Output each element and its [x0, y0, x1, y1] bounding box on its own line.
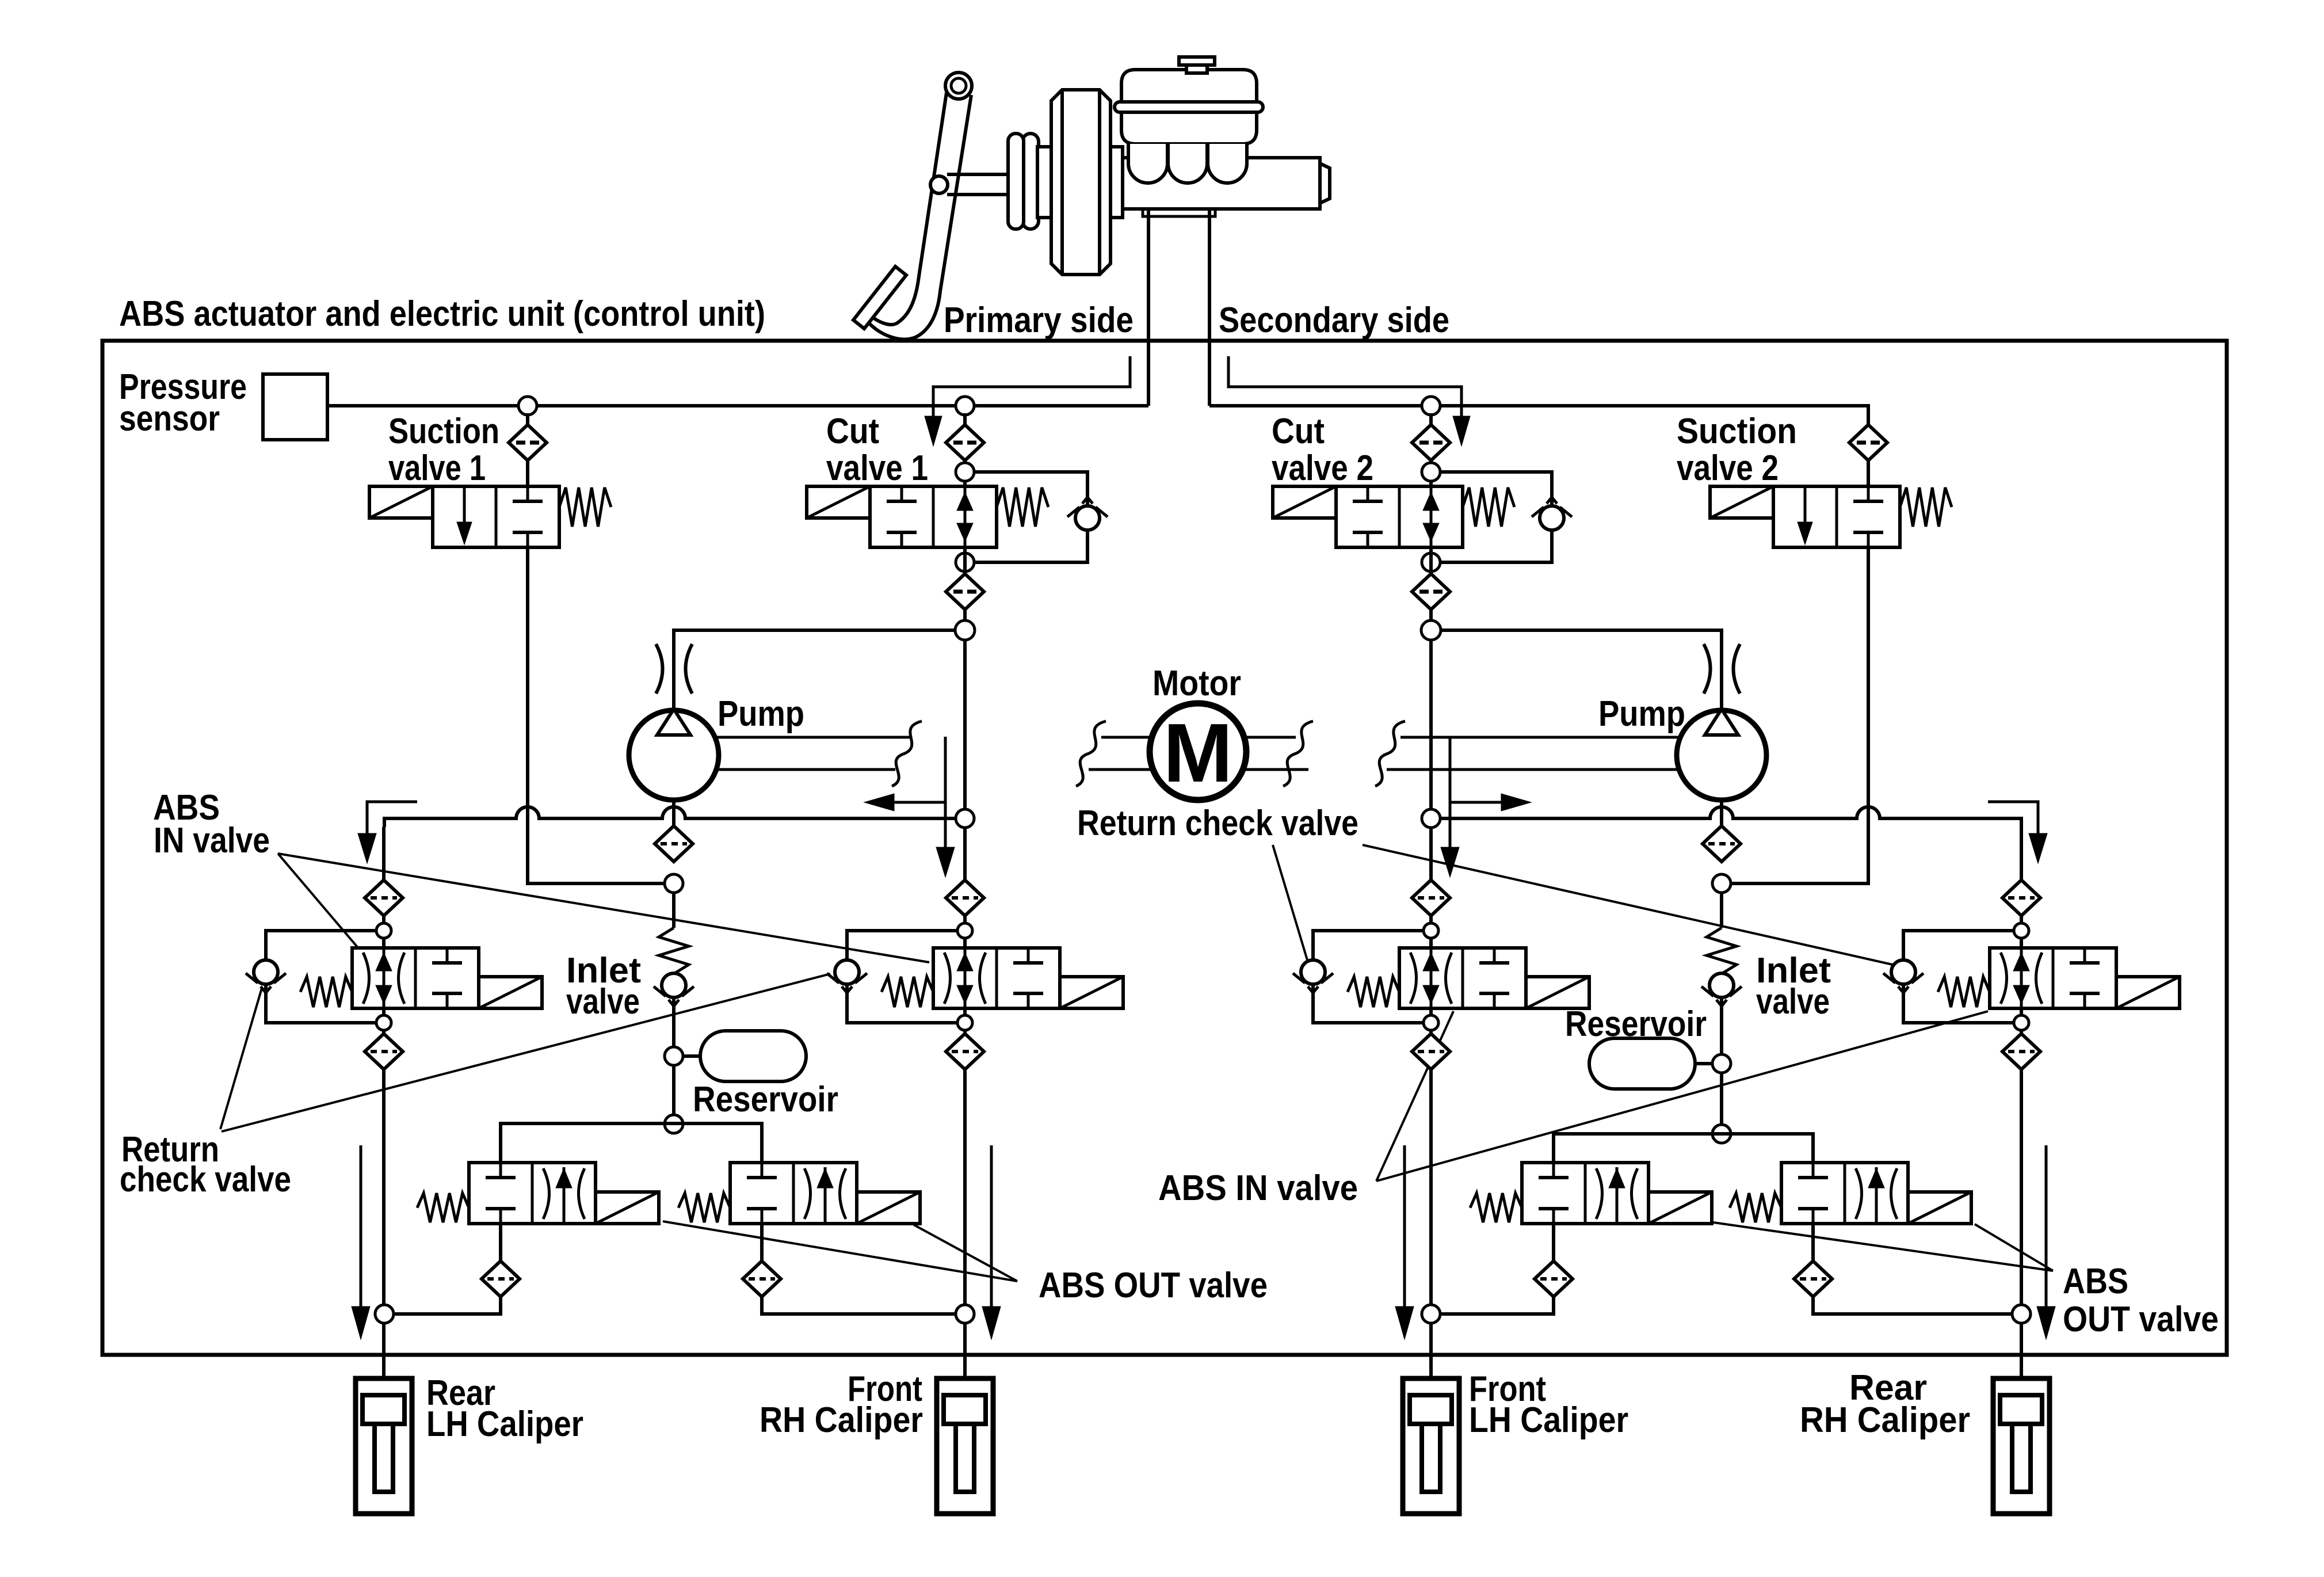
svg-text:ABS: ABS: [2063, 1262, 2128, 1301]
flow arrow into cut valve 1: [933, 356, 1130, 416]
wire: right check to reservoir: [1720, 999, 1723, 1055]
wire: primary main line: [327, 404, 1148, 407]
check valve: IN valve 4 bypass: [1891, 960, 1915, 984]
wire: left pressure manifold: [384, 807, 956, 827]
node: cut valve 1 bypass bottom: [956, 553, 974, 572]
node: IN valve 3 bypass bottom: [1424, 1015, 1438, 1030]
suction valve 1 body: [433, 486, 559, 547]
motor M1: [1150, 703, 1246, 800]
wire: caliper column 2: [963, 1069, 967, 1394]
ABS OUT valve 2 solenoid: [857, 1192, 920, 1224]
wire: suction valve 1 to pump suction: [528, 547, 665, 883]
ABS IN valve 2 body: [933, 948, 1060, 1008]
push rod pivot: [930, 176, 948, 193]
inlet valve spring right: [1707, 928, 1737, 974]
pointer: ABS IN left to IN1: [278, 854, 360, 950]
filter: IN valve 4 outlet: [2002, 1034, 2040, 1069]
check valve: cut valve 1 bypass: [1075, 506, 1100, 530]
push rod: [947, 173, 1019, 176]
filter: IN valve 2 outlet: [946, 1034, 984, 1069]
filter: IN valve 1 outlet: [365, 1034, 403, 1069]
svg-text:RH Caliper: RH Caliper: [1800, 1400, 1970, 1440]
ABS OUT valve 3 body: [1522, 1163, 1648, 1224]
svg-text:OUT valve: OUT valve: [2063, 1300, 2219, 1339]
ABS IN valve 2 spring: [881, 977, 933, 1007]
svg-text:Cut: Cut: [826, 412, 879, 451]
node: left reservoir tap: [665, 1047, 683, 1065]
svg-text:Motor: Motor: [1153, 664, 1241, 703]
booster spacer left: [1037, 147, 1051, 218]
node: cut valve 1 bypass top: [956, 463, 974, 481]
svg-text:valve: valve: [566, 982, 640, 1022]
node: right out manifold junction: [1712, 1125, 1731, 1143]
master cylinder outlet flange: [1143, 209, 1215, 216]
svg-text:valve 1: valve 1: [826, 448, 928, 488]
wire: IN valve 3 bypass: [1313, 931, 1424, 1023]
wire: caliper column 1: [382, 1069, 386, 1394]
node: IN valve 2 bypass bottom: [957, 1015, 972, 1030]
wire: primary outlet pipe: [1147, 209, 1150, 406]
pedal pivot: [945, 73, 972, 99]
svg-text:LH Caliper: LH Caliper: [1469, 1400, 1628, 1440]
wire: suction valve 2 to pump suction: [1730, 547, 1868, 883]
filter: cut valve 2 inlet: [1412, 425, 1450, 460]
node: left manifold junction: [956, 809, 974, 828]
wire: right inlet valve column: [1720, 892, 1723, 928]
ABS OUT valve 3 solenoid: [1648, 1192, 1712, 1224]
wire: OUT valve 2 drain: [760, 1224, 764, 1261]
filter: OUT valve 2 outlet: [743, 1261, 781, 1297]
node: IN valve 1 bypass bottom: [376, 1015, 391, 1030]
check valve: IN valve 3 bypass: [1301, 960, 1325, 984]
node: suction valve 1 tap: [518, 397, 537, 415]
wire: pump right to reservoir column: [1720, 800, 1723, 827]
ABS OUT valve 1 spring: [417, 1193, 469, 1222]
svg-text:ABS actuator and electric unit: ABS actuator and electric unit (control …: [119, 294, 765, 334]
flow arrow to caliper 4: [2045, 1145, 2048, 1306]
filter: IN valve 3 inlet: [1412, 880, 1450, 916]
suction valve 1 spring: [559, 487, 611, 527]
suction valve 2 spring: [1900, 487, 1952, 527]
ABS IN valve 4 spring: [1938, 977, 1990, 1007]
wire: IN valve 2 drop: [963, 827, 967, 880]
node: right suction join: [1712, 874, 1731, 893]
filter: suction valve 2 inlet: [1849, 425, 1887, 460]
ABS OUT valve 2 spring: [678, 1193, 730, 1222]
wire: cut valve 1 bypass: [974, 472, 1087, 562]
node: pump 2 branch: [1421, 620, 1441, 640]
wire: caliper column 3: [1429, 1069, 1433, 1394]
wire: OUT valve 1 drain: [499, 1224, 502, 1261]
check valve: cut valve 2 bypass: [1540, 506, 1564, 530]
pump 1 inlet hose marks: [656, 644, 663, 694]
wire: OUT valve 3 drain: [1552, 1224, 1555, 1261]
check valve: IN valve 2 bypass: [835, 960, 859, 984]
ABS OUT valve 3 spring: [1470, 1193, 1522, 1222]
svg-text:sensor: sensor: [119, 399, 220, 439]
wire: OUT valve 4 drain: [1811, 1224, 1815, 1261]
flow arrow: right manifold: [1450, 801, 1501, 804]
node: cut valve 2 bypass top: [1422, 463, 1440, 481]
ABS IN valve 1 body: [352, 948, 479, 1008]
svg-text:Pump: Pump: [718, 694, 804, 734]
wire: cut valve 1 lower drop: [963, 547, 967, 818]
ABS IN valve 3 body: [1399, 948, 1526, 1008]
wire: caliper column 4: [2020, 1069, 2023, 1394]
filter: left pump outlet: [655, 826, 693, 862]
cut valve 2 solenoid: [1273, 486, 1336, 518]
ABS IN valve 2 solenoid: [1060, 977, 1123, 1008]
pointer: ABS OUT left to OUT1: [663, 1221, 1017, 1281]
wire: right pressure manifold: [1440, 807, 2021, 880]
ABS OUT valve 1 body: [469, 1163, 596, 1224]
pointer: return check left to IN1: [220, 988, 262, 1129]
motor shaft right: [1244, 736, 1296, 739]
wire: IN valve 4 bypass: [1903, 931, 2014, 1023]
svg-text:Suction: Suction: [388, 412, 499, 451]
wire: reservoir 1 stub: [682, 1054, 700, 1058]
reservoir filler cap: [1179, 57, 1215, 65]
svg-text:RH Caliper: RH Caliper: [760, 1400, 923, 1440]
svg-text:valve 1: valve 1: [388, 448, 486, 488]
wire: cut valve 2 drop: [1429, 413, 1433, 486]
filter: OUT valve 4 outlet: [1794, 1261, 1832, 1297]
flow arrow into cut valve 2: [1228, 356, 1461, 416]
wire: pump left to reservoir column: [672, 800, 676, 827]
caliper: Rear LH: [356, 1378, 412, 1514]
wire: IN valve 1 drop: [382, 827, 386, 880]
ABS OUT valve 2 body: [730, 1163, 857, 1224]
wire: right reservoir to out manifold: [1720, 1072, 1723, 1125]
suction valve 2 body: [1773, 486, 1900, 547]
filter: cut valve 1 inlet: [946, 425, 984, 460]
svg-text:Return check valve: Return check valve: [1077, 803, 1358, 843]
svg-text:valve 2: valve 2: [1677, 448, 1779, 488]
wire: left out manifold: [501, 1123, 762, 1163]
cut valve 1 solenoid: [807, 486, 870, 518]
svg-text:ABS IN valve: ABS IN valve: [1158, 1168, 1358, 1208]
wire: suction valve 2 drop: [1867, 460, 1870, 486]
filter: OUT valve 1 outlet: [482, 1261, 520, 1297]
booster drum: [1051, 90, 1111, 275]
svg-text:Reservoir: Reservoir: [693, 1080, 838, 1119]
cut valve 2 spring: [1463, 487, 1514, 527]
pointer: ABS OUT right to OUT4: [1975, 1224, 2053, 1271]
pointer: return check left to IN2: [222, 974, 830, 1132]
suction valve 2 solenoid: [1710, 486, 1773, 518]
pointer: return check right to IN4: [1363, 845, 1898, 966]
pump P1: [629, 710, 719, 800]
pointer: ABS IN left to IN2: [278, 854, 929, 962]
flow arrow: left manifold: [894, 801, 945, 804]
filter: cut valve 1 outlet: [946, 574, 984, 610]
flow arrow into ABS IN valve 1: [367, 802, 417, 833]
node: caliper 1 junction: [375, 1305, 394, 1323]
ABS OUT valve 4 body: [1781, 1163, 1908, 1224]
pointer: ABS IN right to IN3: [1376, 1011, 1453, 1181]
ABS IN valve 3 spring: [1348, 977, 1399, 1007]
wire: cut valve 2 bypass: [1440, 472, 1552, 562]
caliper: Front LH: [1403, 1378, 1459, 1514]
filter: IN valve 1 inlet: [365, 880, 403, 916]
ABS IN valve 4 solenoid: [2116, 977, 2180, 1008]
node: IN valve 4 bypass top: [2014, 923, 2029, 938]
wire: left inlet valve column: [672, 892, 676, 928]
flow arrow to caliper 1: [360, 1145, 362, 1306]
svg-text:valve 2: valve 2: [1272, 448, 1373, 488]
pump P2: [1677, 710, 1766, 800]
wire: IN valve 4 drop: [2020, 827, 2023, 880]
svg-text:valve: valve: [1756, 982, 1830, 1022]
reservoir tank lower: [1121, 112, 1257, 144]
svg-text:Suction: Suction: [1677, 412, 1797, 451]
pressure sensor box: [263, 374, 327, 440]
filter: IN valve 2 inlet: [946, 880, 984, 916]
pointer: ABS IN right to IN4: [1376, 1011, 1988, 1181]
node: cut valve 2 bypass bottom: [1422, 553, 1440, 572]
svg-text:Secondary side: Secondary side: [1219, 300, 1449, 340]
node: cut valve 1 tap: [956, 397, 974, 415]
svg-text:check valve: check valve: [120, 1160, 291, 1199]
reservoir accumulator 1: [700, 1031, 806, 1081]
filter: IN valve 4 inlet: [2002, 880, 2040, 916]
node: left out manifold junction: [665, 1115, 683, 1133]
ABS actuator control unit enclosure box: [102, 341, 2227, 1355]
wire: suction valve 1 drop: [526, 413, 529, 486]
node: left suction join: [665, 874, 683, 893]
master cylinder end cap: [1320, 163, 1330, 203]
node: IN valve 2 bypass top: [957, 923, 972, 938]
ABS OUT valve 4 solenoid: [1908, 1192, 1971, 1224]
node: pump 1 branch: [955, 620, 975, 640]
svg-text:IN valve: IN valve: [154, 821, 270, 860]
svg-text:LH Caliper: LH Caliper: [426, 1404, 583, 1444]
node: right reservoir tap: [1712, 1054, 1731, 1073]
inlet valve check right: [1709, 973, 1734, 997]
filter: cut valve 2 outlet: [1412, 574, 1450, 610]
svg-text:Primary side: Primary side: [944, 300, 1134, 340]
flow arrow to caliper 2: [990, 1145, 993, 1306]
pointer: return check right to IN3: [1273, 845, 1307, 960]
pump 2 inlet hose marks: [1704, 644, 1711, 694]
wire: cut valve 1 drop: [963, 413, 967, 486]
filter: OUT valve 3 outlet: [1535, 1261, 1573, 1297]
wire: IN valve 3 drop: [1429, 827, 1433, 880]
ABS IN valve 1 solenoid: [479, 977, 542, 1008]
node: caliper 4 junction: [2012, 1305, 2031, 1323]
reservoir tank upper: [1121, 70, 1257, 105]
svg-text:ABS OUT valve: ABS OUT valve: [1039, 1266, 1268, 1305]
reservoir collar band: [1115, 102, 1263, 112]
cut valve 1 spring: [997, 487, 1048, 527]
svg-text:Pump: Pump: [1598, 694, 1685, 734]
reservoir feed domes: [1128, 144, 1167, 183]
wire: secondary main line: [1209, 406, 1868, 425]
wire: pump 1 suction branch: [674, 630, 955, 710]
inlet valve spring left: [659, 928, 689, 974]
brake pedal pad: [853, 266, 906, 329]
filter: suction valve 1 inlet: [509, 425, 547, 460]
wire: cut valve 2 lower drop: [1429, 547, 1433, 818]
node: caliper 3 junction: [1422, 1305, 1440, 1323]
check valve: IN valve 1 bypass: [254, 960, 278, 984]
wire: right out manifold: [1554, 1134, 1813, 1163]
inlet valve check left: [662, 973, 686, 997]
svg-text:Reservoir: Reservoir: [1565, 1004, 1707, 1044]
ABS IN valve 3 solenoid: [1526, 977, 1589, 1008]
caliper: Rear RH: [1993, 1378, 2050, 1514]
cut valve 1 body: [870, 486, 997, 547]
svg-text:Cut: Cut: [1272, 412, 1325, 451]
ABS OUT valve 4 spring: [1730, 1193, 1781, 1222]
wire: IN valve 1 bypass: [266, 931, 376, 1023]
booster bellows rings: [1022, 134, 1039, 229]
wire: left reservoir to out manifold: [672, 1065, 676, 1115]
flow arrow to caliper 3: [1403, 1145, 1406, 1306]
reservoir accumulator 2: [1589, 1038, 1695, 1089]
wire: pump 2 suction branch: [1441, 630, 1722, 710]
node: IN valve 1 bypass top: [376, 923, 391, 938]
wire: reservoir 2 stub: [1695, 1062, 1713, 1065]
wire: left check to reservoir: [672, 999, 676, 1047]
svg-text:M: M: [1163, 706, 1233, 799]
filter: right pump outlet: [1703, 826, 1741, 862]
pointer: ABS OUT left to OUT2: [914, 1225, 1017, 1281]
wire: IN valve 2 bypass: [847, 931, 957, 1023]
node: caliper 2 junction: [956, 1305, 974, 1323]
motor shaft left: [715, 736, 911, 739]
suction valve 1 solenoid: [369, 486, 433, 518]
ABS IN valve 4 body: [1990, 948, 2116, 1008]
wire: secondary outlet pipe: [1208, 209, 1211, 406]
flow arrow into ABS IN valve 4: [1988, 802, 2038, 833]
node: cut valve 2 tap: [1422, 397, 1440, 415]
filter: IN valve 3 outlet: [1412, 1034, 1450, 1069]
caliper: Front RH: [937, 1378, 993, 1514]
booster spacer right: [1111, 147, 1123, 218]
node: IN valve 3 bypass top: [1424, 923, 1438, 938]
pointer: ABS OUT right to OUT3: [1714, 1222, 2053, 1271]
brake pedal lever: [871, 93, 947, 325]
ABS OUT valve 1 solenoid: [596, 1192, 659, 1224]
node: right manifold junction: [1422, 809, 1440, 828]
ABS IN valve 1 spring: [300, 977, 352, 1007]
cut valve 2 body: [1336, 486, 1463, 547]
master cylinder body: [1123, 158, 1320, 209]
node: IN valve 4 bypass bottom: [2014, 1015, 2029, 1030]
